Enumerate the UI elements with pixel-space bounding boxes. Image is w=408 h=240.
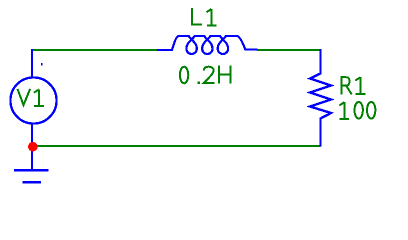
inductor L1 coil bbox=[157, 36, 258, 54]
label V1 bbox=[18, 89, 44, 106]
ground bbox=[14, 170, 49, 182]
value 100 bbox=[339, 102, 375, 119]
V1 plus polarity dot bbox=[41, 63, 43, 66]
wire: top net from inductor L1 right lead to resistor R1 bbox=[257, 49, 321, 51]
wire: V1 bottom lead down to ground (blue) bbox=[31, 123, 33, 170]
label L1 bbox=[192, 8, 216, 26]
wire: V1 top lead (blue) bbox=[31, 49, 33, 78]
wire: bottom net from junction to resistor R1 bottom bbox=[32, 145, 321, 147]
voltage source V1 circle bbox=[10, 77, 56, 123]
value 0.2H bbox=[180, 66, 231, 85]
junction node (red dot) bbox=[28, 142, 38, 152]
label R1 bbox=[341, 77, 365, 94]
resistor R1 zigzag bbox=[310, 49, 331, 147]
wire: top net from V1 to inductor L1 left lead bbox=[32, 49, 158, 51]
